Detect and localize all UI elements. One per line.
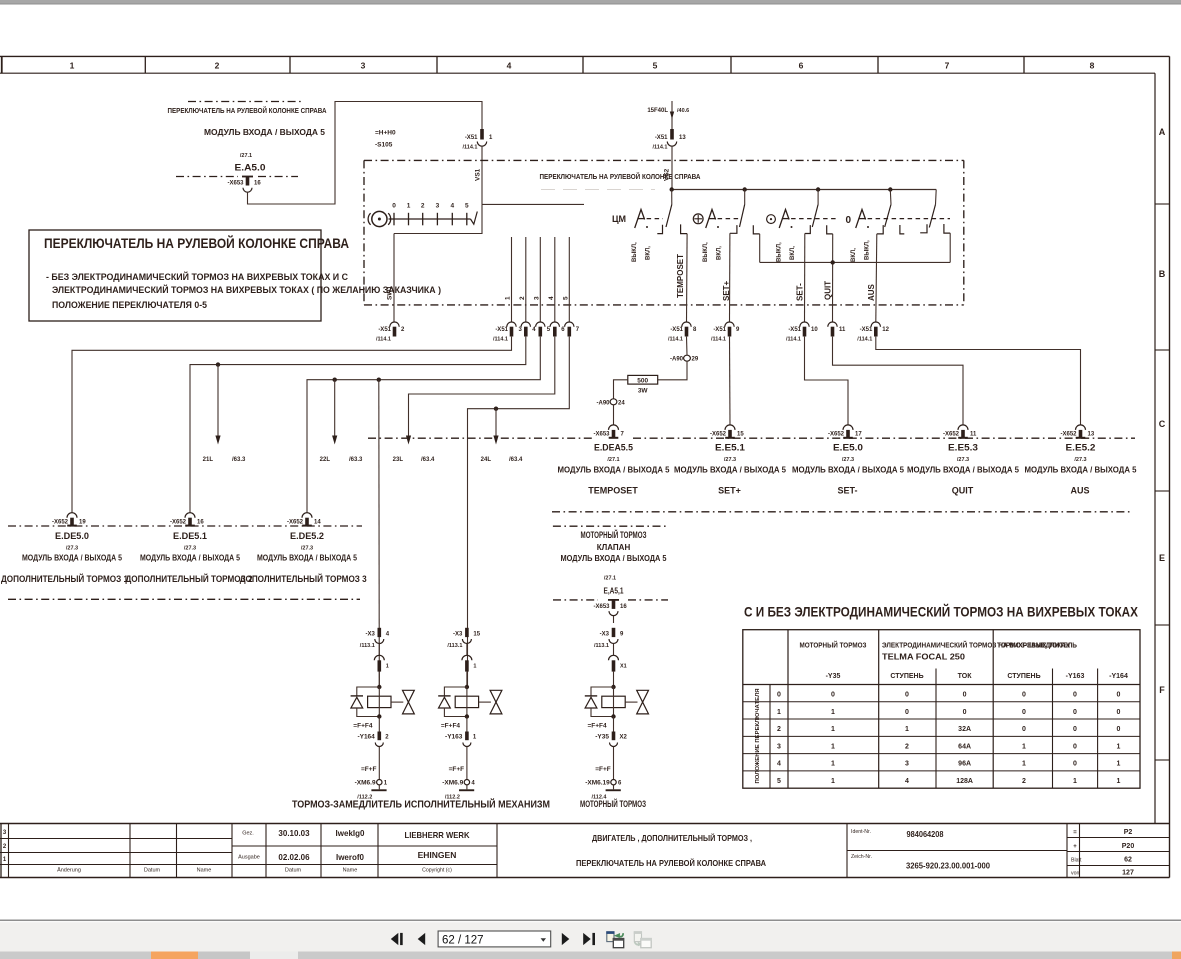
svg-text:1: 1 <box>386 664 389 670</box>
junction node top <box>377 685 381 689</box>
svg-text:5: 5 <box>653 61 658 71</box>
wire X51/6 to arrow 23L <box>409 337 555 438</box>
svg-text:1: 1 <box>1117 743 1121 750</box>
svg-text:62 / 127: 62 / 127 <box>442 934 484 946</box>
svg-text:+: + <box>1073 844 1077 850</box>
svg-text:15: 15 <box>473 632 480 638</box>
wire X3 to plug <box>613 644 615 656</box>
svg-text:Iwerof0: Iwerof0 <box>336 853 365 862</box>
svg-text:-X652: -X652 <box>828 432 845 438</box>
toggle switch 3 SET- <box>767 215 776 224</box>
rotary switch knob symbol <box>372 211 387 226</box>
svg-text:/63.3: /63.3 <box>232 457 246 463</box>
svg-text:/114.1: /114.1 <box>857 337 872 343</box>
top bus from X51/13 <box>672 189 937 191</box>
svg-text:ДВИГАТЕЛЬ , ДОПОЛНИТЕЛЬНЫЙ ТОР: ДВИГАТЕЛЬ , ДОПОЛНИТЕЛЬНЫЙ ТОРМОЗ , <box>592 832 752 843</box>
svg-text:P20: P20 <box>1122 843 1135 850</box>
svg-text:ПЕРЕКЛЮЧАТЕЛЬ НА РУЛЕВОЙ КОЛОН: ПЕРЕКЛЮЧАТЕЛЬ НА РУЛЕВОЙ КОЛОНКЕ СПРАВА <box>168 106 328 115</box>
lower bus <box>760 261 951 263</box>
svg-text:E.E5.3: E.E5.3 <box>948 443 978 454</box>
svg-text:984064208: 984064208 <box>907 830 945 839</box>
terminal A90 pin 29 <box>684 355 691 361</box>
sheet frame: left edge tick <box>1 56 3 73</box>
svg-text:ЭЛЕКТРОДИНАМИЧЕСКИЙ ТОРМОЗ НА: ЭЛЕКТРОДИНАМИЧЕСКИЙ ТОРМОЗ НА ВИХРЕВЫХ Т… <box>52 284 441 296</box>
svg-text:23L: 23L <box>393 457 404 463</box>
svg-text:0: 0 <box>963 692 967 699</box>
connector X3 pin 9 <box>612 628 616 637</box>
wire X653/16 to X3/9 <box>613 616 615 623</box>
svg-text:/40.6: /40.6 <box>677 108 689 114</box>
svg-text:3: 3 <box>436 203 440 210</box>
svg-text:SET+: SET+ <box>718 486 741 496</box>
wire X51/9 to X652/15 <box>729 337 732 425</box>
svg-text:11: 11 <box>839 327 846 333</box>
info box <box>29 230 321 321</box>
svg-text:0: 0 <box>1022 692 1026 699</box>
svg-text:1: 1 <box>831 778 835 785</box>
svg-text:0: 0 <box>1117 709 1121 716</box>
svg-text:ТОРМОЗ-ЗАМЕДЛИТЕЛЬ: ТОРМОЗ-ЗАМЕДЛИТЕЛЬ <box>997 641 1078 650</box>
solenoid coil <box>368 696 391 707</box>
terminal -XM6.19 <box>611 780 616 785</box>
svg-text:0: 0 <box>846 215 852 226</box>
svg-text:ПЕРЕКЛЮЧАТЕЛЬ НА РУЛЕВОЙ КОЛОН: ПЕРЕКЛЮЧАТЕЛЬ НА РУЛЕВОЙ КОЛОНКЕ СПРАВА <box>540 172 702 181</box>
svg-text:1: 1 <box>1022 743 1026 750</box>
svg-text:/114.1: /114.1 <box>668 337 683 343</box>
wire riser to Y164 branch <box>378 380 381 687</box>
arrow on feed wire <box>670 112 674 120</box>
svg-text:21L: 21L <box>203 457 214 463</box>
svg-text:P2: P2 <box>1124 829 1133 836</box>
svg-text:Name: Name <box>197 868 212 874</box>
svg-text:32A: 32A <box>958 726 971 733</box>
svg-text:ЦМ: ЦМ <box>612 214 626 224</box>
svg-text:/114.1: /114.1 <box>463 145 478 151</box>
svg-text:62: 62 <box>1124 857 1132 864</box>
wire QUIT bracket through lower bus to X51/11 <box>832 234 834 322</box>
svg-text:/27.3: /27.3 <box>724 457 736 463</box>
junction node bottom <box>465 714 469 718</box>
svg-text:C: C <box>1159 419 1166 429</box>
svg-text:X2: X2 <box>620 735 628 741</box>
svg-text:/27.1: /27.1 <box>240 153 252 159</box>
svg-text:A: A <box>1159 127 1166 137</box>
svg-text:E,A5,1: E,A5,1 <box>604 587 624 596</box>
wire X51/11 to X652/11 <box>833 337 964 425</box>
solenoid coil <box>602 696 625 707</box>
svg-text:12: 12 <box>882 327 889 333</box>
svg-text:=F+F: =F+F <box>361 766 377 773</box>
svg-text:/114.1: /114.1 <box>653 145 668 151</box>
svg-text:1: 1 <box>905 726 909 733</box>
wire SET- output to X51/10 <box>804 234 806 323</box>
svg-text:/113.1: /113.1 <box>360 643 375 649</box>
svg-text:МОДУЛЬ ВХОДА / ВЫХОДА 5: МОДУЛЬ ВХОДА / ВЫХОДА 5 <box>674 466 787 475</box>
svg-text:-X51: -X51 <box>860 327 873 333</box>
wire X653/16 to X51/1 <box>248 102 483 205</box>
svg-text:0: 0 <box>777 692 781 699</box>
svg-text:МОДУЛЬ ВХОДА / ВЫХОДА 5: МОДУЛЬ ВХОДА / ВЫХОДА 5 <box>1025 466 1138 475</box>
wire X51/12 to X652/13 <box>876 337 1081 425</box>
svg-text:- БЕЗ ЭЛЕКТРОДИНАМИЧЕСКИЙ ТОРМ: - БЕЗ ЭЛЕКТРОДИНАМИЧЕСКИЙ ТОРМОЗ НА ВИХР… <box>46 271 348 283</box>
svg-text:0: 0 <box>1073 761 1077 768</box>
svg-text:Zeich-Nr.: Zeich-Nr. <box>851 854 872 860</box>
connector X652 pin 17 (E.E5.0) <box>843 425 853 430</box>
svg-text:ВКЛ,: ВКЛ, <box>717 246 723 260</box>
valve actuator bowtie <box>479 701 491 703</box>
svg-text:-X51: -X51 <box>655 135 668 141</box>
table grid <box>743 630 1140 789</box>
connector X652 pin 13 (E.E5.2) <box>1076 425 1086 430</box>
svg-text:КЛАПАН: КЛАПАН <box>597 543 631 552</box>
svg-text:4: 4 <box>450 203 454 210</box>
svg-text:-Y163: -Y163 <box>1066 673 1085 680</box>
svg-text:ПОЛОЖЕНИЕ ПЕРЕКЛЮЧАТЕЛЯ: ПОЛОЖЕНИЕ ПЕРЕКЛЮЧАТЕЛЯ <box>755 688 761 783</box>
svg-text:МОДУЛЬ ВХОДА / ВЫХОДА 5: МОДУЛЬ ВХОДА / ВЫХОДА 5 <box>907 466 1020 475</box>
svg-text:=F+F4: =F+F4 <box>588 722 608 729</box>
svg-text:МОТОРНЫЙ ТОРМОЗ: МОТОРНЫЙ ТОРМОЗ <box>581 529 647 540</box>
svg-text:7: 7 <box>945 61 950 71</box>
svg-text:19: 19 <box>79 520 86 526</box>
toolbar first-page button <box>391 933 399 945</box>
svg-text:0: 0 <box>963 709 967 716</box>
connector X51 pin 12 <box>871 322 880 327</box>
svg-text:1: 1 <box>505 296 512 300</box>
svg-text:1: 1 <box>1073 778 1077 785</box>
solenoid connector -Y163 <box>466 717 468 732</box>
svg-text:SET+: SET+ <box>722 280 731 301</box>
wire X51/5 to X652/14 (E.DE5.2) <box>307 337 540 513</box>
rotary feed corner from X51/1 <box>482 203 584 205</box>
svg-text:2: 2 <box>905 743 909 750</box>
wire to XM terminal <box>466 747 468 780</box>
svg-text:/114.1: /114.1 <box>493 337 508 343</box>
junction node top <box>465 685 469 689</box>
svg-text:-S105: -S105 <box>375 142 393 149</box>
svg-text:von: von <box>1071 871 1079 877</box>
svg-text:2: 2 <box>1022 778 1026 785</box>
svg-text:02.02.06: 02.02.06 <box>278 853 310 862</box>
svg-text:ДОПОЛНИТЕЛЬНЫЙ ТОРМОЗ 3: ДОПОЛНИТЕЛЬНЫЙ ТОРМОЗ 3 <box>240 573 367 584</box>
svg-text:E.DE5.0: E.DE5.0 <box>55 531 89 542</box>
svg-text:ПЕРЕКЛЮЧАТЕЛЬ НА РУЛЕВОЙ КОЛОН: ПЕРЕКЛЮЧАТЕЛЬ НА РУЛЕВОЙ КОЛОНКЕ СПРАВА <box>576 857 766 868</box>
svg-text:/63.3: /63.3 <box>349 457 363 463</box>
svg-text:0: 0 <box>831 692 835 699</box>
svg-text:МОДУЛЬ ВХОДА / ВЫХОДА 5: МОДУЛЬ ВХОДА / ВЫХОДА 5 <box>558 466 671 475</box>
svg-text:AUS: AUS <box>1070 486 1089 496</box>
svg-text:-Y164: -Y164 <box>357 734 375 741</box>
svg-text:5: 5 <box>465 203 469 210</box>
svg-text:3: 3 <box>361 61 366 71</box>
svg-text:E.DEA5.5: E.DEA5.5 <box>594 443 634 454</box>
svg-text:Änderung: Änderung <box>57 867 81 874</box>
svg-text:Blatt: Blatt <box>1071 858 1082 864</box>
svg-text:4: 4 <box>777 761 781 768</box>
svg-text:-X51: -X51 <box>495 327 508 333</box>
svg-text:=F+F: =F+F <box>449 766 465 773</box>
svg-text:С И БЕЗ ЭЛЕКТРОДИНАМИЧЕСКИЙ ТО: С И БЕЗ ЭЛЕКТРОДИНАМИЧЕСКИЙ ТОРМОЗ НА ВИ… <box>744 603 1139 620</box>
switch S105 enclosure dash-dot box <box>364 159 964 161</box>
svg-text:LIEBHERR WERK: LIEBHERR WERK <box>405 830 471 840</box>
svg-text:МОТОРНЫЙ ТОРМОЗ: МОТОРНЫЙ ТОРМОЗ <box>800 641 867 650</box>
wire SET+ output to X51/9 <box>729 233 731 322</box>
svg-text:E.DE5.1: E.DE5.1 <box>173 531 208 542</box>
junction node top <box>611 685 615 689</box>
svg-text:EHINGEN: EHINGEN <box>418 850 457 860</box>
svg-text:ДОПОЛНИТЕЛЬНЫЙ ТОРМОЗ 2: ДОПОЛНИТЕЛЬНЫЙ ТОРМОЗ 2 <box>126 573 253 584</box>
svg-text:Ident-Nr.: Ident-Nr. <box>851 829 871 835</box>
wire X51/13 to bus <box>671 146 673 189</box>
suppressor diode loop <box>357 687 380 696</box>
svg-text:ВКЛ,: ВКЛ, <box>851 248 857 262</box>
svg-text:AUS: AUS <box>867 283 876 301</box>
svg-text:-XM6.9: -XM6.9 <box>442 780 463 787</box>
wire plug to coil <box>613 672 615 687</box>
wire X3 to plug <box>466 644 468 656</box>
connector X652 pin 16 (E.DE5.1) <box>185 513 195 518</box>
svg-text:/63.4: /63.4 <box>421 457 435 463</box>
svg-text:17: 17 <box>855 432 862 438</box>
svg-text:128A: 128A <box>956 778 973 785</box>
connector X51 pin 1 <box>480 129 484 140</box>
svg-text:-XM6.9: -XM6.9 <box>355 780 376 787</box>
svg-text:0: 0 <box>1073 709 1077 716</box>
title block <box>0 823 1170 825</box>
svg-text:-X51: -X51 <box>788 327 801 333</box>
position output wires 1-5 <box>511 237 513 322</box>
junction node bottom <box>377 714 381 718</box>
motor brake module top dash-dot <box>553 525 667 527</box>
wire X3 to plug <box>378 644 380 656</box>
svg-text:Datum: Datum <box>285 868 302 874</box>
svg-text:1: 1 <box>70 61 75 71</box>
svg-text:24L: 24L <box>481 457 492 463</box>
svg-text:МОДУЛЬ ВХОДА / ВЫХОДА 5: МОДУЛЬ ВХОДА / ВЫХОДА 5 <box>257 554 357 563</box>
svg-text:-A90: -A90 <box>596 400 610 406</box>
svg-text:-X652: -X652 <box>287 520 304 526</box>
svg-text:-X653: -X653 <box>593 432 610 438</box>
ground bar <box>466 785 468 789</box>
svg-text:-X652: -X652 <box>1060 432 1077 438</box>
svg-text:=F+F4: =F+F4 <box>353 722 373 729</box>
svg-text:/113.1: /113.1 <box>594 643 609 649</box>
svg-text:-X51: -X51 <box>465 135 478 141</box>
svg-text:МОДУЛЬ ВХОДА / ВЫХОДА 5: МОДУЛЬ ВХОДА / ВЫХОДА 5 <box>22 554 122 563</box>
wire SET+ right bracket to lower bus <box>759 234 761 263</box>
svg-text:Name: Name <box>343 868 358 874</box>
svg-text:-X653: -X653 <box>227 181 244 187</box>
wire X51/3 to X652/19 (E.DE5.0) <box>72 337 512 513</box>
wire X51/8 down <box>686 337 689 355</box>
connector X653 pin 7 (E.DEA5.5) <box>609 425 619 430</box>
junction + arrow 21L <box>216 362 220 366</box>
svg-text:МОДУЛЬ ВХОДА / ВЫХОДА 5: МОДУЛЬ ВХОДА / ВЫХОДА 5 <box>561 554 668 563</box>
svg-text:16: 16 <box>620 604 627 610</box>
connector X51 pins 3-7 <box>507 322 516 327</box>
svg-text:96A: 96A <box>958 761 971 768</box>
valve actuator bowtie <box>391 701 403 703</box>
toggle switch 2 SET+ <box>693 214 703 224</box>
solenoid connector -Y164 <box>378 717 380 732</box>
svg-text:E.E5.2: E.E5.2 <box>1066 443 1096 454</box>
svg-text:1: 1 <box>1022 761 1026 768</box>
svg-text:=F+F4: =F+F4 <box>441 722 461 729</box>
svg-text:ПЕРЕКЛЮЧАТЕЛЬ НА РУЛЕВОЙ КОЛОН: ПЕРЕКЛЮЧАТЕЛЬ НА РУЛЕВОЙ КОЛОНКЕ СПРАВА <box>44 234 349 251</box>
svg-text:-X3: -X3 <box>453 632 463 638</box>
connector X51 pin 11 <box>828 322 837 327</box>
svg-text:-X652: -X652 <box>710 432 727 438</box>
svg-text:Gez.: Gez. <box>242 831 254 837</box>
svg-text:1: 1 <box>831 761 835 768</box>
toolbar prev-page button <box>418 933 426 945</box>
svg-text:/27.1: /27.1 <box>607 457 619 463</box>
svg-text:SET-: SET- <box>837 486 857 496</box>
svg-text:-X51: -X51 <box>670 327 683 333</box>
svg-text:-Y35: -Y35 <box>826 673 841 680</box>
svg-text:16: 16 <box>197 520 204 526</box>
connector X652 pin 19 (E.DE5.0) <box>67 513 77 518</box>
connector X653 pin 16 (E.A5.0) <box>242 176 253 178</box>
svg-text:/114.1: /114.1 <box>786 337 801 343</box>
svg-text:2: 2 <box>519 296 526 300</box>
svg-text:/27.3: /27.3 <box>301 546 313 552</box>
svg-text:0: 0 <box>1073 692 1077 699</box>
svg-text:2: 2 <box>777 726 781 733</box>
connector X51 pin 2 <box>390 322 399 327</box>
svg-text:-X652: -X652 <box>52 520 69 526</box>
wire resistor to A90/24 <box>614 380 628 399</box>
svg-text:6: 6 <box>799 61 804 71</box>
svg-text:/27.3: /27.3 <box>184 546 196 552</box>
suppressor diode loop <box>444 687 467 696</box>
svg-text:-X3: -X3 <box>600 632 610 638</box>
svg-text:-XM6.19: -XM6.19 <box>585 780 610 787</box>
wire X51/4 to X652/16 (E.DE5.1) <box>190 337 526 513</box>
svg-text:-X653: -X653 <box>593 604 610 610</box>
svg-text:E.E5.0: E.E5.0 <box>833 443 863 454</box>
svg-text:22L: 22L <box>320 457 331 463</box>
svg-text:0: 0 <box>905 709 909 716</box>
connector X51 pin 9 <box>725 322 734 327</box>
svg-text:Datum: Datum <box>144 868 161 874</box>
svg-text:F: F <box>1159 685 1165 695</box>
wire X51/1 into switch box <box>481 146 483 204</box>
svg-text:10: 10 <box>811 327 818 333</box>
svg-text:СТУПЕНЬ: СТУПЕНЬ <box>1007 673 1040 680</box>
svg-text:0: 0 <box>1022 726 1026 733</box>
svg-text:Copyright (c): Copyright (c) <box>422 868 452 874</box>
svg-text:3: 3 <box>533 296 540 300</box>
junction node bottom <box>611 714 615 718</box>
svg-text:0: 0 <box>1022 709 1026 716</box>
connector X3 pin 15 <box>465 628 469 637</box>
svg-text:29: 29 <box>692 357 699 363</box>
svg-text:VS1: VS1 <box>475 168 482 181</box>
svg-text:-X51: -X51 <box>713 327 726 333</box>
svg-text:1: 1 <box>407 203 411 210</box>
connector X51 pin 8 <box>682 322 691 327</box>
svg-text:Ausgabe: Ausgabe <box>238 855 260 861</box>
svg-text:5: 5 <box>777 778 781 785</box>
wire plug to coil <box>466 672 468 687</box>
connector X652 pin 11 (E.E5.3) <box>958 425 968 430</box>
svg-text:-X652: -X652 <box>943 432 960 438</box>
svg-text:TEMPOSET: TEMPOSET <box>588 486 638 496</box>
bottom taskbar strip <box>0 952 1181 959</box>
terminal -XM6.9 <box>377 780 382 785</box>
resistor 500 3W <box>628 375 658 384</box>
svg-text:МОТОРНЫЙ ТОРМОЗ: МОТОРНЫЙ ТОРМОЗ <box>580 798 646 809</box>
modules bottom dash-dot <box>552 511 1133 513</box>
toolbar previous-view icon <box>607 932 614 942</box>
svg-text:QUIT: QUIT <box>824 281 833 300</box>
svg-text:1: 1 <box>1117 778 1121 785</box>
toolbar next-page button <box>562 933 570 945</box>
svg-text:0: 0 <box>1073 726 1077 733</box>
connector X3 pin 4 <box>378 628 382 637</box>
viewer bottom panel <box>0 920 1181 922</box>
svg-text:0: 0 <box>392 203 396 210</box>
svg-text:X1: X1 <box>620 664 627 670</box>
sheet frame: column header band <box>0 55 1170 57</box>
wire 15F40L from top <box>671 101 673 129</box>
svg-text:E: E <box>1159 553 1165 563</box>
svg-text:-A90: -A90 <box>670 357 684 363</box>
svg-text:1: 1 <box>473 664 476 670</box>
svg-text:64A: 64A <box>958 743 971 750</box>
svg-text:-Y163: -Y163 <box>445 734 463 741</box>
svg-text:1: 1 <box>777 709 781 716</box>
svg-text:E.E5.1: E.E5.1 <box>715 443 746 454</box>
junction to valve Y164 riser <box>377 378 381 382</box>
svg-text:-X3: -X3 <box>365 632 375 638</box>
motor brake module bottom dash-dot <box>553 599 598 601</box>
sheet frame: right row-letter band <box>1154 73 1156 824</box>
plug connector 1 <box>462 655 472 660</box>
terminal A90 pin 24 <box>610 399 617 405</box>
toggle switch 4 second contact <box>935 190 938 205</box>
svg-text:ВЫКЛ,: ВЫКЛ, <box>865 240 871 260</box>
wire to XM terminal <box>378 747 380 780</box>
toolbar last-page button <box>583 933 591 945</box>
connector X51 pin 10 <box>800 322 809 327</box>
left modules bottom dash-dot <box>8 598 360 600</box>
svg-text:IwekIg0: IwekIg0 <box>336 829 365 838</box>
svg-text:4: 4 <box>548 296 555 300</box>
junction + arrow 22L <box>333 378 337 382</box>
wire plug to coil <box>378 672 380 687</box>
svg-text:-X51: -X51 <box>378 327 391 333</box>
svg-text:8: 8 <box>1090 61 1095 71</box>
rotary switch position scale 0-5 <box>389 218 471 220</box>
toolbar next-view icon (disabled) <box>634 932 641 942</box>
svg-text:2: 2 <box>421 203 425 210</box>
svg-text:=H+H0: =H+H0 <box>375 130 396 137</box>
scan artifact faint line <box>541 189 655 191</box>
svg-text:127: 127 <box>1122 870 1134 877</box>
viewer top gray strip <box>0 0 1181 5</box>
svg-text:30.10.03: 30.10.03 <box>278 829 310 838</box>
svg-text:0: 0 <box>905 692 909 699</box>
svg-text:ВКЛ,: ВКЛ, <box>646 246 652 260</box>
svg-text:0: 0 <box>1117 726 1121 733</box>
svg-text:ДОПОЛНИТЕЛЬНЫЙ ТОРМОЗ 1: ДОПОЛНИТЕЛЬНЫЙ ТОРМОЗ 1 <box>1 573 128 584</box>
rotary switch moving contact <box>471 212 478 225</box>
module E.A5.0 boundary (dash-dot top) <box>188 101 301 103</box>
svg-text:МОДУЛЬ ВХОДА / ВЫХОДА 5: МОДУЛЬ ВХОДА / ВЫХОДА 5 <box>140 554 240 563</box>
svg-text:5: 5 <box>562 296 569 300</box>
svg-text:/63.4: /63.4 <box>509 457 523 463</box>
